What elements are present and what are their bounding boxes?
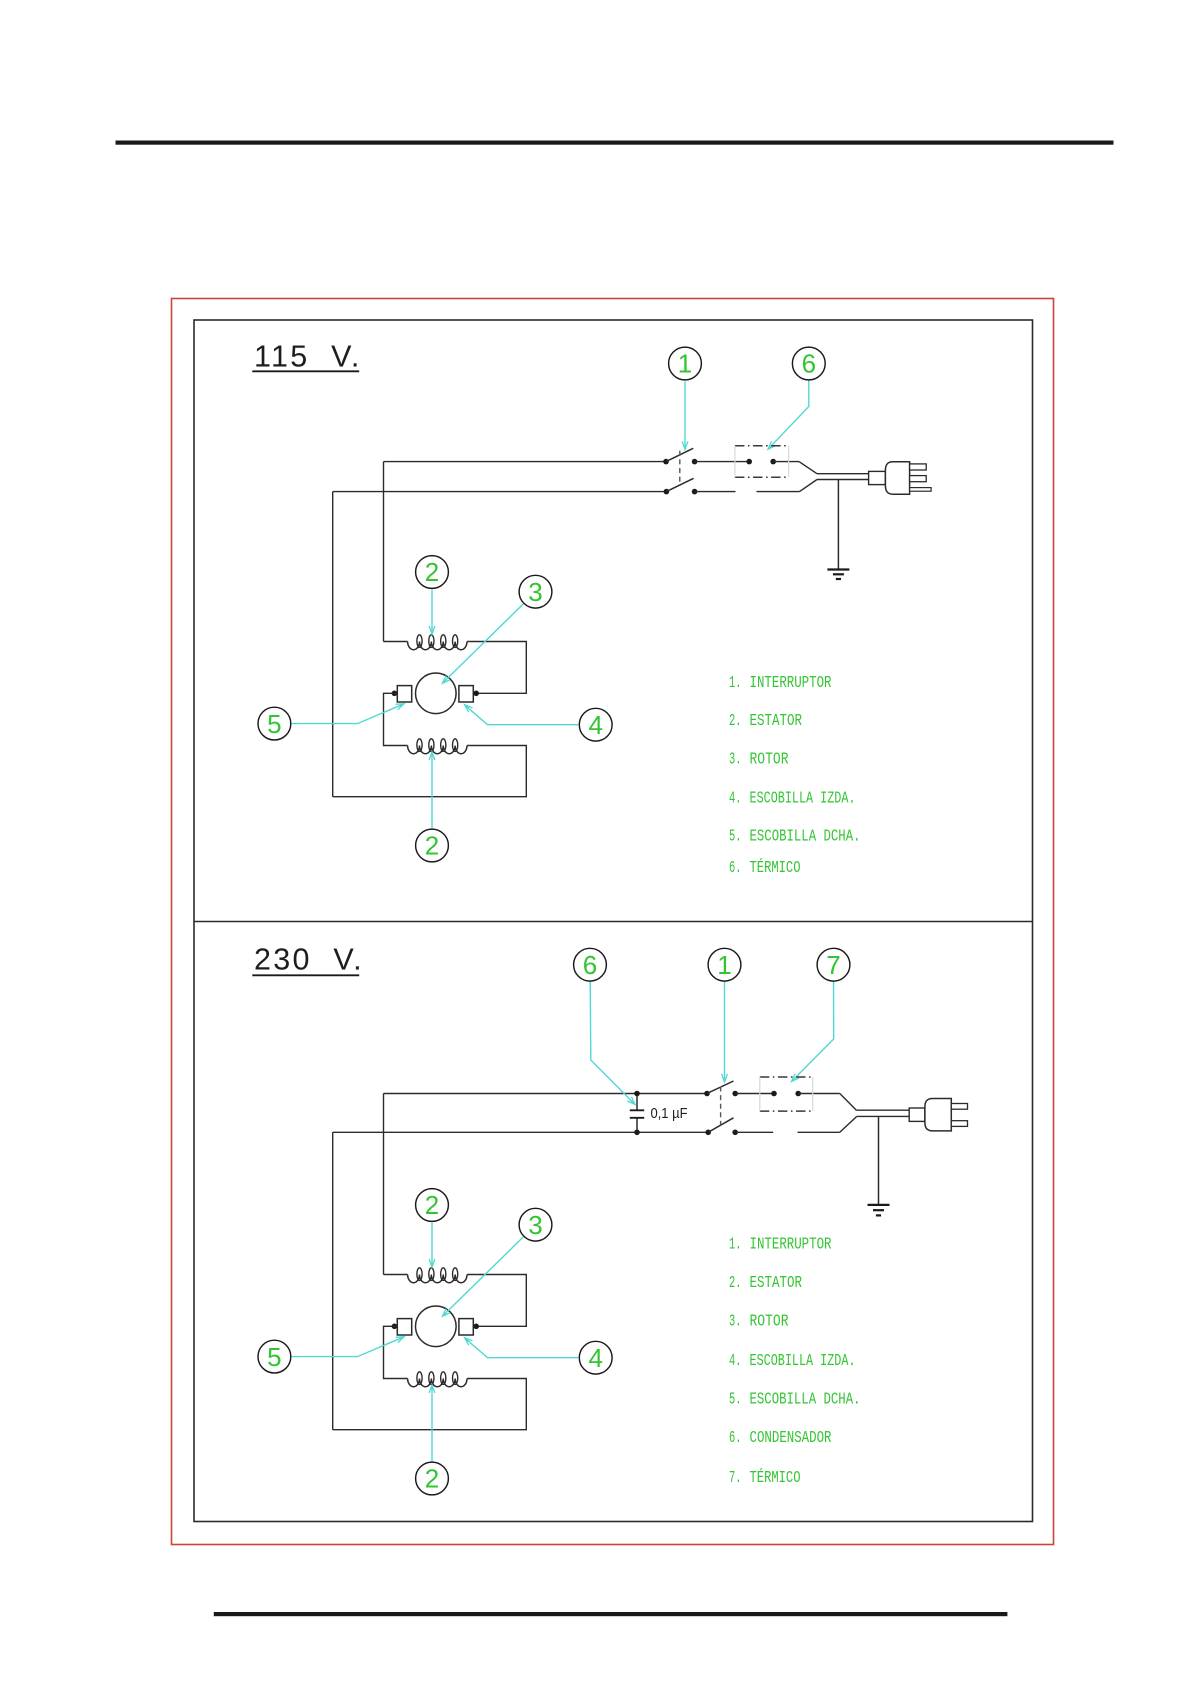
- svg-text:3.: 3.: [729, 1312, 742, 1331]
- plug body (230V): [925, 1099, 951, 1131]
- top rule: [116, 141, 1114, 145]
- thermal terminal dot left (115V): [746, 459, 752, 465]
- wire L-line to switch (230V): [384, 1093, 708, 1095]
- svg-text:1: 1: [717, 950, 731, 980]
- leader 6 (230V): [590, 981, 635, 1104]
- wire bottom-coil return (115V): [333, 746, 527, 797]
- funnel bottom (230V): [840, 1116, 857, 1132]
- cable top line (230V): [856, 1109, 909, 1111]
- wire thermal to funnel top (115V): [773, 461, 799, 463]
- callout 5 (115V): [258, 707, 291, 740]
- wire coil-top to right brush (230V): [467, 1275, 526, 1327]
- callout 3 (115V): [519, 575, 552, 608]
- ground wire (230V): [878, 1116, 880, 1205]
- leader 3 (115V): [442, 604, 523, 683]
- wire N-line to switch (115V): [333, 491, 667, 493]
- stator coil top (230V): [408, 1275, 467, 1283]
- junction dot left brush (115V): [392, 691, 398, 697]
- leader 5 (115V): [292, 704, 404, 724]
- leader 4 (115V): [465, 705, 579, 725]
- wire left vertical outer (230V): [332, 1132, 334, 1429]
- cable top line (115V): [817, 473, 869, 475]
- switch contact dot bottom-right (230V): [732, 1130, 738, 1136]
- svg-text:2: 2: [425, 831, 439, 861]
- stator coil bottom (230V): [408, 1379, 467, 1387]
- switch contact dot bottom-left (230V): [705, 1130, 711, 1136]
- wire switch to thermal (115V): [695, 461, 750, 463]
- callout 1 (230V): [708, 948, 741, 981]
- callout 5 (230V): [258, 1340, 291, 1373]
- leader 2 top (115V): [431, 589, 433, 634]
- svg-text:6: 6: [802, 349, 816, 379]
- svg-text:INTERRUPTOR: INTERRUPTOR: [749, 673, 831, 692]
- thermal terminal dot right (115V): [770, 459, 776, 465]
- svg-text:5: 5: [267, 709, 281, 739]
- brush left (230V): [397, 1319, 411, 1335]
- junction dot right brush (230V): [473, 1324, 479, 1330]
- wire bottom segment a (115V): [695, 491, 736, 493]
- funnel top (230V): [840, 1094, 857, 1111]
- callout 2 bottom (230V): [416, 1462, 449, 1495]
- thermal protector dashed box (230V): [760, 1077, 813, 1111]
- switch contact dot bottom-right (115V): [692, 489, 698, 495]
- rotor (115V): [416, 673, 457, 714]
- switch linkage dashed (115V): [679, 451, 681, 483]
- wire bottom-coil return (230V): [333, 1379, 527, 1430]
- svg-text:3.: 3.: [729, 749, 742, 768]
- stator coil bottom (115V): [408, 746, 467, 754]
- wire left vertical top (115V): [383, 462, 385, 642]
- callout 6 (230V): [574, 948, 607, 981]
- svg-text:3: 3: [528, 577, 542, 607]
- capacitor junction dot top (230V): [634, 1091, 640, 1097]
- svg-text:4: 4: [588, 1343, 602, 1373]
- svg-text:5: 5: [267, 1342, 281, 1372]
- thermal protector dashed box (115V): [735, 446, 789, 478]
- leader 2 bottom (230V): [431, 1385, 433, 1461]
- switch blade bottom (230V): [708, 1118, 733, 1133]
- svg-text:5.: 5.: [729, 1389, 742, 1408]
- callout 3 (230V): [519, 1208, 552, 1241]
- svg-text:0,1 µF: 0,1 µF: [650, 1105, 687, 1122]
- svg-text:CONDENSADOR: CONDENSADOR: [749, 1428, 831, 1447]
- svg-text:115 V.: 115 V.: [254, 340, 362, 374]
- svg-text:TÉRMICO: TÉRMICO: [749, 858, 800, 877]
- plug prong top (230V): [951, 1104, 967, 1110]
- svg-text:TÉRMICO: TÉRMICO: [749, 1468, 800, 1487]
- plug body (115V): [885, 462, 909, 494]
- wire top-coil feed left (115V): [384, 641, 408, 643]
- svg-text:1: 1: [678, 349, 692, 379]
- plug prong top (115V): [910, 464, 927, 470]
- svg-text:6: 6: [583, 950, 597, 980]
- wire coil-top to right brush (115V): [467, 642, 526, 694]
- cable bottom line (230V): [857, 1115, 909, 1117]
- funnel top (115V): [799, 462, 817, 474]
- switch contact dot top-right (230V): [732, 1091, 738, 1097]
- wire left brush to bottom coil (230V): [384, 1326, 408, 1378]
- ground symbol (115V): [827, 568, 849, 570]
- callout 4 (230V): [579, 1341, 612, 1374]
- callout 1 (115V): [669, 347, 702, 380]
- callout 7 (230V): [817, 948, 850, 981]
- cable bottom line (115V): [817, 479, 869, 481]
- wire bottom segment b (115V): [757, 491, 800, 493]
- switch blade top (230V): [707, 1081, 734, 1094]
- inner black frame: [194, 320, 1033, 1522]
- svg-text:2.: 2.: [729, 1273, 742, 1292]
- red outer frame: [172, 299, 1054, 1545]
- svg-text:230 V.: 230 V.: [254, 943, 364, 977]
- junction dot left brush (230V): [392, 1324, 398, 1330]
- brush right (230V): [459, 1319, 473, 1335]
- callout 2 top (115V): [416, 556, 449, 589]
- brush left (115V): [397, 686, 411, 702]
- capacitor junction dot bottom (230V): [634, 1130, 640, 1136]
- wire left vertical top (230V): [383, 1094, 385, 1275]
- wire bottom segment b (230V): [798, 1131, 840, 1133]
- svg-text:4.: 4.: [729, 788, 742, 807]
- plug ground pin (115V): [910, 488, 932, 492]
- junction dot right brush (115V): [473, 691, 479, 697]
- wire top-coil feed left (230V): [384, 1274, 408, 1276]
- switch blade bottom (115V): [666, 478, 693, 491]
- wire bottom segment a (230V): [735, 1131, 773, 1133]
- svg-text:5.: 5.: [729, 827, 742, 846]
- ground symbol (230V): [868, 1204, 890, 1206]
- switch contact dot top-right (115V): [692, 459, 698, 465]
- svg-text:ROTOR: ROTOR: [749, 1312, 788, 1331]
- thermal terminal dot left (230V): [771, 1091, 777, 1097]
- svg-text:ROTOR: ROTOR: [749, 749, 788, 768]
- callout 4 (115V): [579, 708, 612, 741]
- wire switch to thermal (230V): [735, 1093, 774, 1095]
- plug prong middle (115V): [910, 476, 927, 482]
- switch contact dot bottom-left (115V): [664, 489, 670, 495]
- divider line: [194, 921, 1033, 923]
- leader 4 (230V): [465, 1338, 579, 1358]
- svg-text:4: 4: [588, 710, 602, 740]
- switch linkage dashed (230V): [720, 1087, 722, 1126]
- bottom rule: [214, 1612, 1008, 1616]
- leader 2 bottom (115V): [431, 752, 433, 828]
- ground wire (115V): [837, 480, 839, 570]
- svg-text:ESCOBILLA IZDA.: ESCOBILLA IZDA.: [749, 1351, 855, 1370]
- svg-text:2: 2: [425, 557, 439, 587]
- wire N-line to switch (230V): [333, 1131, 709, 1133]
- svg-text:ESCOBILLA DCHA.: ESCOBILLA DCHA.: [749, 1389, 860, 1408]
- svg-text:ESTATOR: ESTATOR: [749, 1273, 802, 1292]
- svg-text:INTERRUPTOR: INTERRUPTOR: [749, 1235, 831, 1254]
- svg-text:2.: 2.: [729, 711, 742, 730]
- leader 5 (230V): [292, 1337, 404, 1357]
- leader 2 top (230V): [431, 1222, 433, 1267]
- svg-text:6.: 6.: [729, 1428, 742, 1447]
- switch blade top (115V): [666, 448, 693, 461]
- leader 1 (115V): [684, 381, 686, 449]
- leader 1 (230V): [724, 981, 726, 1082]
- cable rect (115V): [869, 471, 886, 484]
- wire L-line to switch (115V): [384, 461, 667, 463]
- leader 6 (115V): [768, 380, 809, 449]
- svg-text:2: 2: [425, 1464, 439, 1494]
- leader 3 (230V): [442, 1237, 523, 1316]
- funnel bottom (115V): [800, 480, 818, 492]
- svg-text:ESCOBILLA DCHA.: ESCOBILLA DCHA.: [749, 827, 860, 846]
- callout 6 (115V): [792, 347, 825, 380]
- capacitor C 0,1uF (230V): [636, 1094, 638, 1133]
- callout 2 top (230V): [416, 1189, 449, 1222]
- brush right (115V): [459, 686, 473, 702]
- svg-text:ESTATOR: ESTATOR: [749, 711, 802, 730]
- stator coil top (115V): [408, 642, 467, 650]
- wire thermal to funnel top (230V): [798, 1093, 840, 1095]
- svg-text:7.: 7.: [729, 1468, 742, 1487]
- leader 7 (230V): [792, 981, 834, 1081]
- switch contact dot top-left (115V): [663, 459, 669, 465]
- svg-text:7: 7: [826, 950, 840, 980]
- callout 2 bottom (115V): [416, 829, 449, 862]
- rotor (230V): [416, 1306, 457, 1347]
- wire left vertical outer (115V): [332, 492, 334, 797]
- svg-text:1.: 1.: [729, 1235, 742, 1254]
- wire left brush to bottom coil (115V): [384, 693, 408, 745]
- svg-text:6.: 6.: [729, 858, 742, 877]
- svg-text:1.: 1.: [729, 673, 742, 692]
- svg-text:2: 2: [425, 1190, 439, 1220]
- svg-text:ESCOBILLA IZDA.: ESCOBILLA IZDA.: [749, 788, 855, 807]
- svg-text:4.: 4.: [729, 1351, 742, 1370]
- cable rect (230V): [909, 1108, 925, 1121]
- thermal terminal dot right (230V): [795, 1091, 801, 1097]
- svg-text:3: 3: [528, 1210, 542, 1240]
- plug prong bottom (230V): [951, 1121, 967, 1127]
- switch contact dot top-left (230V): [704, 1091, 710, 1097]
